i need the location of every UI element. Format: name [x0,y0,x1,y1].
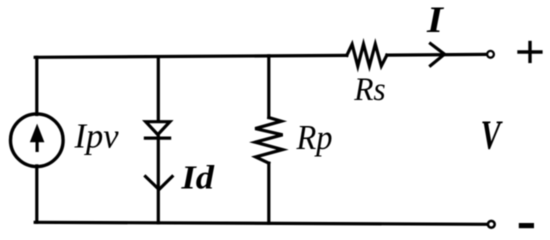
wire Rp branch vertical top [267,56,270,118]
wire diode branch vertical [157,57,160,223]
resistor Rp (vertical zigzag) [255,118,282,164]
wire top horizontal right section [387,53,487,57]
svg-text:Ipv: Ipv [74,117,119,156]
plus sign + [517,50,542,53]
svg-text:Rs: Rs [353,72,385,108]
wire bottom horizontal [35,222,487,224]
wire top horizontal left section [35,55,347,57]
wire left vertical top [35,57,38,114]
svg-text:Rp: Rp [296,118,333,157]
wire left vertical bottom [35,166,38,222]
current arrow Id (chevron down) [146,177,173,190]
current source arrow (up) [30,124,45,152]
terminal node + (open circle) [487,51,494,58]
minus sign - [519,223,534,228]
current source Ipv (circle) [11,114,64,167]
svg-text:V: V [481,111,504,157]
diode D (triangle + cathode bar) [146,122,170,135]
terminal node - (open circle) [488,221,495,228]
current arrow I (chevron) [431,44,445,66]
svg-text:Id: Id [180,160,215,197]
resistor Rs [347,44,387,66]
wire Rp branch vertical bottom [267,163,270,223]
svg-text:I: I [426,0,445,41]
